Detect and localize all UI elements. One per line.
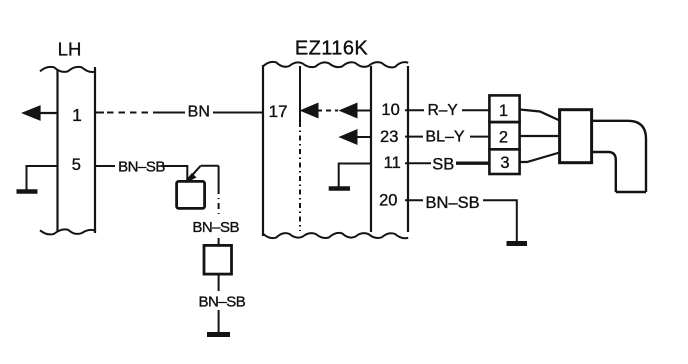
- connector pin 2 box: [489, 122, 519, 149]
- wire stub into second connector: [218, 238, 220, 245]
- connector box (in-line connector, upper): [177, 181, 205, 208]
- arrow out of LH pin 1: [24, 107, 58, 119]
- internal ground wire from pin 11: [339, 164, 371, 187]
- component EZ116K right edge: [407, 66, 409, 232]
- svg-text:EZ116K: EZ116K: [295, 38, 368, 60]
- internal arrow at pin 23: [341, 131, 371, 144]
- connector pin 3 box: [489, 149, 519, 174]
- wire stub to bottom ground: [218, 310, 220, 332]
- svg-text:10: 10: [381, 101, 399, 119]
- wire BL-Y from pin 23 to connector pin 2: [405, 136, 489, 138]
- svg-text:3: 3: [500, 154, 509, 172]
- svg-text:5: 5: [72, 156, 81, 174]
- svg-text:1: 1: [72, 105, 82, 125]
- svg-text:R–Y: R–Y: [428, 102, 458, 119]
- wire BN-SB from LH pin 5 to connector box: [95, 166, 187, 181]
- component LH box top torn edge: [40, 67, 96, 72]
- svg-text:BN–SB: BN–SB: [199, 293, 246, 310]
- internal arrow at pin 17: [302, 104, 338, 117]
- wire R-Y from pin 10 to connector pin 1: [405, 109, 489, 111]
- svg-text:BN–SB: BN–SB: [426, 194, 480, 212]
- svg-text:BN: BN: [188, 104, 210, 121]
- component EZ116K bottom torn edge: [263, 233, 408, 238]
- component LH box left edge: [56, 70, 58, 231]
- svg-text:20: 20: [379, 192, 397, 210]
- internal ground (EZ116K): [329, 186, 350, 191]
- harness lead from connector pin 2: [520, 135, 560, 137]
- harness tube elbow: [592, 121, 646, 192]
- svg-text:BN–SB: BN–SB: [118, 158, 165, 175]
- component EZ116K top torn edge: [263, 62, 408, 67]
- svg-text:17: 17: [269, 102, 288, 121]
- junction diagonal branch at connector box: [186, 166, 219, 182]
- svg-text:BN–SB: BN–SB: [192, 219, 239, 236]
- svg-text:SB: SB: [432, 156, 454, 174]
- connector body: [560, 110, 592, 163]
- internal arrow at pin 10: [341, 104, 371, 117]
- ground (bottom right): [507, 241, 528, 246]
- connector pin 1 box: [489, 95, 519, 122]
- svg-text:BL–Y: BL–Y: [425, 129, 464, 146]
- harness lead from connector pin 1: [520, 110, 560, 121]
- wire BN-SB from pin 20 to ground: [405, 200, 517, 241]
- wire below lower connector: [218, 274, 220, 291]
- svg-text:LH: LH: [58, 39, 82, 60]
- ground (bottom middle): [207, 332, 230, 337]
- component LH box right edge: [94, 67, 96, 233]
- wire down to second connector (dash-dot): [218, 166, 220, 216]
- wire SB from pin 11 to connector pin 3: [405, 162, 489, 164]
- component EZ116K divider 1: [299, 66, 301, 231]
- component EZ116K box left edge: [262, 65, 264, 236]
- svg-text:2: 2: [499, 128, 508, 146]
- component LH box bottom torn edge: [40, 229, 96, 234]
- wire BN from LH pin 1 to EZ116K pin 17: [95, 112, 263, 114]
- wire LH pin 5 to ground (left): [27, 166, 58, 190]
- svg-text:1: 1: [499, 102, 508, 120]
- ground (left of LH): [17, 189, 38, 194]
- harness lead from connector pin 3: [520, 153, 560, 163]
- svg-text:23: 23: [380, 128, 398, 146]
- component EZ116K divider 2: [370, 66, 372, 232]
- svg-text:11: 11: [384, 154, 401, 172]
- connector box (in-line connector, lower): [204, 245, 232, 274]
